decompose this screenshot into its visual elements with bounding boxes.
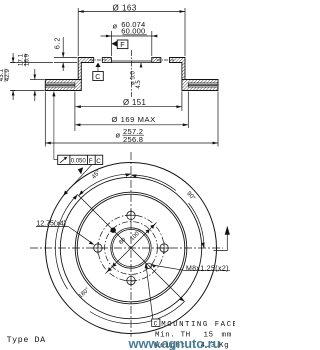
dimension 6.2 (54, 37, 77, 71)
braking band inner circle (60, 177, 201, 318)
view arrow right (214, 233, 228, 250)
dimension Ø151 (75, 92, 182, 112)
vertical centerline (130, 152, 132, 337)
45 deg dimension arc (79, 173, 131, 195)
180 deg dimension arc (55, 195, 184, 324)
dimension 43.1/42.9 (0, 53, 53, 100)
leader 12.75(x4) (36, 221, 94, 245)
svg-text:M8x1.25(x2): M8x1.25(x2) (186, 265, 229, 272)
bolt circle Ø100 dash-dot (98, 215, 164, 281)
M8 hole open (lower-right) (146, 263, 151, 268)
bolt hole centerline right (157, 59, 174, 61)
friction ring right (182, 80, 218, 91)
bolt hole right (158, 242, 170, 254)
bolt hole centerline left (90, 59, 107, 61)
svg-text:C: C (154, 320, 158, 327)
svg-text:www.agnuto.ru: www.agnuto.ru (128, 336, 221, 350)
flange left-inner section (102, 58, 111, 63)
leader M8x1.25(x2) (151, 264, 230, 273)
dimension Ø60.074/60.000 (101, 20, 158, 56)
outer circle (46, 163, 217, 334)
bore chamfer circle (112, 229, 149, 266)
svg-text:0.050: 0.050 (71, 159, 87, 165)
bore circle (111, 228, 151, 268)
runout leader to front view (65, 165, 92, 194)
svg-text:C: C (95, 74, 100, 81)
dimension 5.0/4.5 vertical label (130, 63, 142, 89)
M8 hole filled (upper-left) (111, 228, 116, 233)
svg-text:60.000: 60.000 (121, 27, 145, 36)
hat outer circle (75, 192, 187, 304)
svg-text:ø: ø (116, 130, 121, 139)
bore far edge lines (111, 60, 151, 62)
flange left section (78, 58, 94, 80)
dimension 17.1/16.9 (17, 53, 44, 101)
leader datum C to hub (145, 263, 153, 319)
dimension Ø257.2/256.8 (45, 92, 218, 147)
section centerline (131, 50, 133, 97)
svg-text:Ø 163: Ø 163 (113, 3, 137, 12)
horizontal centerline (30, 247, 223, 249)
svg-text:MOUNTING FACE: MOUNTING FACE (161, 321, 235, 329)
svg-text:Kg: Kg (219, 342, 229, 350)
hat flange circle (77, 194, 185, 302)
note C MOUNTING FACE (152, 319, 239, 329)
bolt circle dimension line 45deg (106, 223, 157, 274)
vent channel right (188, 83, 218, 87)
flange right section (170, 58, 186, 80)
M8 circle Ø80 dash-dot (105, 222, 158, 275)
svg-text:16.9: 16.9 (23, 53, 30, 66)
dimension Ø163 (78, 3, 185, 56)
friction ring left (45, 80, 81, 91)
datum F flag (111, 40, 128, 49)
runout leader to section (54, 95, 58, 159)
dimension Ø169 MAX (75, 92, 188, 132)
svg-text:4.5: 4.5 (136, 80, 142, 89)
svg-text:F: F (120, 40, 125, 49)
svg-text:C: C (96, 158, 101, 165)
diagonal 135 through M8 holes (78, 195, 185, 302)
bolt hole bottom (125, 274, 137, 286)
bolt hole left (92, 242, 104, 254)
svg-text:mm: mm (222, 332, 233, 340)
datum C flag (section) (93, 63, 104, 82)
svg-text:F: F (89, 158, 93, 165)
flange right-inner section (152, 58, 161, 63)
svg-text:256.8: 256.8 (123, 135, 143, 144)
bolt hole top (125, 209, 137, 221)
svg-text:6.2: 6.2 (55, 37, 62, 49)
svg-text:ø: ø (113, 22, 118, 31)
90 deg dimension arc (131, 174, 205, 248)
svg-text:Type DA: Type DA (7, 336, 46, 345)
runout symbol (60, 158, 66, 163)
runout tolerance frame (58, 155, 103, 164)
svg-text:Ø 151: Ø 151 (123, 98, 146, 107)
svg-text:Ø 169 MAX: Ø 169 MAX (112, 115, 156, 124)
vent channel left (45, 83, 75, 87)
